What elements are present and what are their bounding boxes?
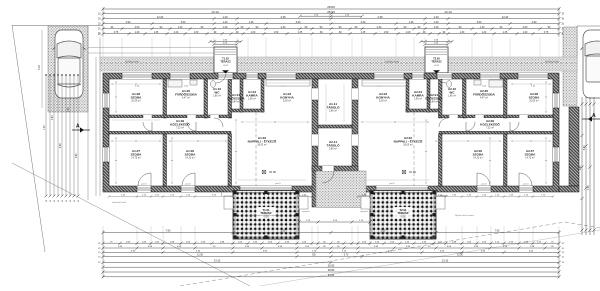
svg-text:Nyílott külső közmű kerávágya: Nyílott külső közmű kerávágya [250, 214, 280, 217]
svg-text:holtsávél körül: holtsávél körül [112, 201, 126, 204]
svg-text:±0.00: ±0.00 [409, 170, 416, 174]
svg-text:6.40: 6.40 [584, 145, 586, 150]
svg-text:28,05 m²: 28,05 m² [257, 144, 267, 147]
svg-text:pro 0: pro 0 [186, 183, 192, 186]
room A2.04 KAMRA [412, 90, 424, 101]
svg-text:1.20: 1.20 [178, 26, 183, 29]
svg-text:1.20: 1.20 [434, 21, 439, 24]
svg-text:1,96 m²: 1,96 m² [414, 98, 422, 101]
terrace T1.01 [224, 191, 308, 240]
svg-text:14,75 m²: 14,75 m² [525, 157, 535, 160]
svg-text:4,47 m²: 4,47 m² [480, 97, 488, 100]
fence line top [12, 25, 103, 27]
svg-text:3.20: 3.20 [588, 185, 590, 190]
svg-text:2.40: 2.40 [76, 153, 78, 158]
site boundary diagonal left [12, 25, 45, 252]
room A2.09 KÖZLEKEDŐ [480, 119, 500, 130]
svg-text:30: 30 [58, 200, 60, 202]
top dimension block [98, 5, 565, 46]
entrance porch T2.02 TERASZ [425, 47, 448, 73]
level marker right unit [402, 170, 406, 174]
svg-text:3,86 m²: 3,86 m² [329, 148, 337, 151]
interior dimension lines in rooms [112, 82, 550, 183]
site boundary diagonal bottom [12, 163, 250, 286]
svg-text:1.50: 1.50 [68, 107, 70, 112]
svg-text:30: 30 [54, 200, 56, 202]
terrace T2.01 [361, 191, 445, 240]
svg-text:2.40: 2.40 [580, 165, 582, 170]
room A2.10 WC [448, 87, 457, 98]
svg-text:30: 30 [62, 200, 64, 202]
room A1.09 KÖZLEKEDŐ [170, 119, 190, 130]
svg-text:7,32 m²: 7,32 m² [176, 127, 184, 130]
svg-text:pro 0: pro 0 [142, 183, 148, 186]
central rear patio (stipple) [316, 171, 366, 208]
svg-text:5.70: 5.70 [344, 255, 349, 257]
svg-text:2.90: 2.90 [532, 21, 537, 24]
svg-text:26.50: 26.50 [327, 10, 335, 14]
room A2.07 SZOBA [525, 149, 537, 160]
section marker A (right) [582, 113, 600, 122]
dims between terraces [299, 221, 370, 223]
svg-text:7.90: 7.90 [495, 230, 500, 233]
svg-text:30.80: 30.80 [328, 273, 335, 277]
car 1 (top-left) [53, 30, 86, 98]
parking edge lines left [87, 26, 89, 200]
svg-text:1.50: 1.50 [274, 32, 279, 34]
svg-text:20,09 m²: 20,09 m² [131, 100, 141, 103]
bottom extension lines [103, 226, 559, 246]
svg-text:A: A [76, 124, 80, 130]
storage rear door [322, 166, 334, 171]
svg-text:1.20: 1.20 [135, 32, 140, 34]
svg-text:13.10: 13.10 [442, 259, 449, 263]
svg-text:1.50: 1.50 [384, 32, 389, 34]
svg-text:14,75 m²: 14,75 m² [131, 157, 141, 160]
car 2 (top-right, clipped) [581, 30, 600, 98]
svg-text:1.30: 1.30 [460, 32, 465, 34]
svg-text:1.35: 1.35 [298, 32, 303, 34]
bottom dimension block [98, 230, 565, 279]
svg-text:2.30: 2.30 [377, 26, 382, 29]
svg-text:TERASZ: TERASZ [397, 211, 408, 215]
svg-text:3.75: 3.75 [114, 32, 119, 34]
svg-text:2.20: 2.20 [281, 230, 286, 233]
svg-text:3.20: 3.20 [361, 21, 366, 24]
svg-text:30: 30 [50, 200, 52, 202]
svg-text:5.00: 5.00 [38, 65, 41, 70]
svg-text:7.08: 7.08 [44, 125, 46, 130]
svg-text:4.48: 4.48 [60, 143, 62, 148]
svg-text:1.20: 1.20 [482, 32, 487, 34]
svg-text:upogota: upogota [360, 210, 369, 213]
svg-text:upogota: upogota [220, 187, 223, 196]
room A2.03 KONYHA [376, 92, 390, 103]
interior walls right unit [406, 79, 553, 186]
svg-text:térkőburkolat: térkőburkolat [545, 61, 559, 64]
svg-text:1,96 m²: 1,96 m² [248, 98, 256, 101]
building outer walls [103, 73, 559, 192]
svg-text:30: 30 [74, 200, 76, 202]
svg-text:12.20: 12.20 [502, 15, 509, 19]
svg-text:1.00: 1.00 [406, 32, 411, 34]
svg-text:2.90: 2.90 [126, 21, 131, 24]
svg-text:1,86 m²: 1,86 m² [213, 95, 221, 98]
svg-text:1.45: 1.45 [409, 21, 414, 24]
svg-text:3,84 m²: 3,84 m² [430, 101, 438, 104]
svg-text:26.50: 26.50 [328, 263, 335, 267]
section marker A (left) [72, 124, 90, 133]
svg-text:3.20: 3.20 [296, 21, 301, 24]
svg-text:1.30: 1.30 [194, 32, 199, 34]
svg-text:14,23 m²: 14,23 m² [185, 157, 195, 160]
svg-text:térkőburkolat: térkőburkolat [125, 61, 139, 64]
svg-text:3.60: 3.60 [477, 21, 482, 24]
svg-text:1.45: 1.45 [249, 21, 254, 24]
svg-text:7.90: 7.90 [166, 230, 171, 233]
section line dashes [255, 112, 257, 186]
svg-text:1.20: 1.20 [174, 32, 179, 34]
svg-text:30: 30 [66, 200, 68, 202]
svg-text:9,28 m²: 9,28 m² [379, 100, 387, 103]
svg-text:2.00: 2.00 [135, 26, 140, 29]
svg-text:1.35: 1.35 [503, 32, 508, 34]
svg-text:térkőburkolat: térkőburkolat [385, 61, 399, 64]
window openings left wall [103, 93, 109, 108]
svg-text:1.35: 1.35 [361, 32, 366, 34]
svg-text:2.20: 2.20 [381, 230, 386, 233]
svg-text:pro 0: pro 0 [524, 183, 530, 186]
svg-text:-0.02: -0.02 [223, 65, 229, 67]
room A1.04 KAMRA [246, 90, 258, 101]
svg-text:4.35: 4.35 [280, 15, 286, 19]
svg-text:1.00: 1.00 [251, 32, 256, 34]
svg-text:30: 30 [78, 200, 80, 202]
svg-text:13.10: 13.10 [214, 259, 221, 263]
room A1.08 SZOBA [131, 92, 143, 103]
svg-text:30: 30 [70, 200, 72, 202]
svg-text:upogota: upogota [302, 210, 311, 213]
svg-text:20,09 m²: 20,09 m² [529, 100, 539, 103]
room A1.05 FÜRDŐSZOBA [175, 89, 198, 100]
walkway to entrance [88, 47, 214, 49]
svg-text:A: A [592, 113, 596, 119]
svg-text:3.60: 3.60 [181, 21, 186, 24]
svg-text:1.20: 1.20 [223, 26, 228, 29]
svg-text:13.10: 13.10 [211, 10, 219, 14]
svg-text:1.20: 1.20 [434, 26, 439, 29]
svg-text:3,84 m²: 3,84 m² [232, 101, 240, 104]
svg-text:1.20: 1.20 [223, 21, 228, 24]
room A1.03 KONYHA [280, 92, 294, 103]
svg-text:4,47 m²: 4,47 m² [182, 97, 190, 100]
kitchen counter right [362, 80, 406, 86]
svg-text:1.20: 1.20 [480, 26, 485, 29]
kitchen counter left [266, 80, 310, 86]
svg-text:7,32 m²: 7,32 m² [486, 127, 494, 130]
svg-text:12.50: 12.50 [457, 255, 463, 257]
svg-text:TERASZ: TERASZ [220, 60, 231, 64]
svg-text:3,86 m²: 3,86 m² [329, 110, 337, 113]
svg-text:pro 5: pro 5 [390, 182, 396, 185]
parking pavement right (stipple) [563, 27, 577, 106]
svg-text:30: 30 [46, 200, 48, 202]
window openings right wall [553, 93, 559, 108]
storage doors [312, 88, 318, 100]
svg-text:Nyílott külső közmű: Nyílott külső közmű [455, 214, 475, 217]
svg-text:9,28 m²: 9,28 m² [283, 100, 291, 103]
svg-text:12.20: 12.20 [157, 15, 164, 19]
window openings top wall [122, 73, 548, 79]
room A1.11 TÁROLÓ [326, 102, 340, 113]
site boundary diagonal bottom right (dashed) [180, 222, 600, 286]
fence line top right [577, 25, 600, 27]
room A2.01 ELŐSZOBA [425, 93, 443, 104]
svg-text:1.20: 1.20 [433, 15, 439, 19]
svg-text:pro 5: pro 5 [276, 182, 282, 185]
svg-text:28,05 m²: 28,05 m² [403, 144, 413, 147]
room A2.11 TÁROLÓ [326, 140, 340, 151]
svg-text:3.43: 3.43 [52, 115, 54, 120]
room A1.01 ELŐSZOBA [227, 93, 245, 104]
interior walls left unit [109, 79, 264, 186]
left vertical dimension cluster [44, 74, 80, 202]
svg-text:3.75: 3.75 [544, 32, 549, 34]
svg-text:28.80: 28.80 [327, 5, 335, 9]
room A1.07 SZOBA [131, 149, 143, 160]
room A1.06 SZOBA [185, 149, 197, 160]
central storage column walls [312, 79, 318, 207]
svg-text:1.20: 1.20 [523, 32, 528, 34]
right vertical dimension cluster [580, 97, 596, 235]
entrance porch T1.02 TERASZ [214, 47, 237, 73]
room A2.08 SZOBA [529, 92, 541, 103]
room A2.05 FÜRDŐSZOBA [473, 89, 496, 100]
svg-text:ED: ED [312, 255, 316, 257]
svg-text:12.50: 12.50 [197, 255, 203, 257]
door openings bottom wall / patio doors [137, 186, 533, 192]
room A1.10 WC [213, 87, 222, 98]
extension lines top [103, 38, 559, 58]
svg-text:TERASZ: TERASZ [431, 60, 442, 64]
room A2.02 NAPPALI - ÉTKEZŐ [394, 136, 423, 147]
bathroom fixtures left [168, 80, 182, 87]
svg-text:±0.00: ±0.00 [269, 170, 276, 174]
parking pavement left (stipple) [48, 26, 88, 112]
svg-text:28.80: 28.80 [328, 268, 335, 272]
bathroom fixtures right [489, 80, 503, 87]
svg-text:14,23 m²: 14,23 m² [473, 157, 483, 160]
room A2.06 SZOBA [473, 149, 485, 160]
sub-wall dimension strip [109, 196, 553, 198]
svg-text:13.10: 13.10 [444, 10, 452, 14]
svg-text:-0.02: -0.02 [434, 65, 440, 67]
garden wall right [569, 107, 579, 186]
door swing arcs [138, 73, 532, 186]
svg-text:-0.02: -0.02 [400, 216, 406, 218]
exterior walkway band along north facade [100, 57, 577, 71]
room A1.02 NAPPALI - ÉTKEZŐ [248, 136, 277, 147]
svg-text:1,86 m²: 1,86 m² [448, 95, 456, 98]
svg-text:1.35: 1.35 [154, 32, 159, 34]
svg-text:pro 0: pro 0 [482, 183, 488, 186]
svg-text:2.00: 2.00 [523, 26, 528, 29]
svg-text:2.30: 2.30 [281, 26, 286, 29]
svg-text:1.20: 1.20 [222, 15, 228, 19]
corridor door gaps [143, 115, 152, 118]
level marker left unit [262, 170, 266, 174]
svg-text:4.35: 4.35 [377, 15, 383, 19]
